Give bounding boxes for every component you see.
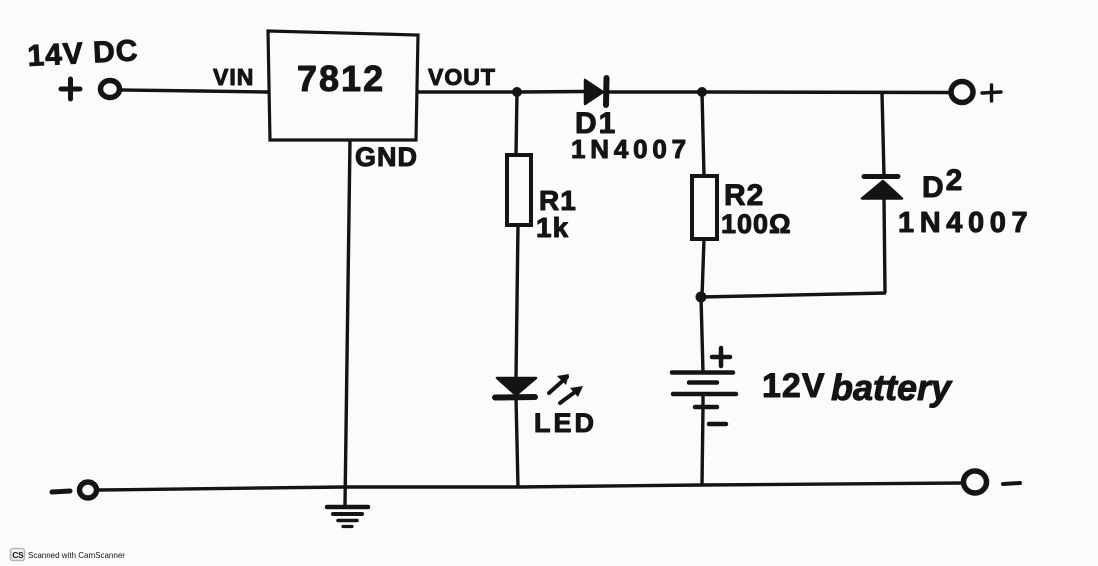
- svg-text:1k: 1k: [536, 212, 569, 243]
- wire node B to output terminal: [702, 90, 949, 94]
- battery plus label: [712, 348, 730, 366]
- wire LED to bottom rail: [516, 397, 518, 488]
- svg-text:1N4007: 1N4007: [571, 134, 691, 164]
- node A junction dot: [512, 87, 522, 97]
- minus sign at bottom-right terminal: [1003, 483, 1020, 484]
- battery plate long 1: [672, 370, 733, 375]
- wire node A to diode D1: [517, 90, 585, 94]
- diode D2: [862, 177, 902, 199]
- LED D3: [495, 374, 583, 403]
- wire node A down to R1: [516, 92, 517, 155]
- svg-text:1N4007: 1N4007: [898, 207, 1033, 239]
- svg-text:12V: 12V: [762, 367, 826, 405]
- bottom rail wire: [99, 483, 963, 490]
- battery plate short 1: [689, 380, 717, 385]
- wire VOUT to node A: [417, 90, 517, 93]
- svg-text:100Ω: 100Ω: [721, 209, 792, 239]
- minus sign at bottom-left terminal: [52, 491, 70, 492]
- wire input terminal to VIN: [122, 90, 268, 92]
- input terminal circle: [101, 81, 120, 98]
- svg-text:GND: GND: [355, 142, 418, 172]
- svg-text:VIN: VIN: [213, 64, 254, 90]
- svg-text:R2: R2: [724, 179, 764, 212]
- wire battery to bottom rail: [702, 394, 703, 485]
- bottom-right negative terminal: [964, 471, 987, 493]
- svg-text:14V DC: 14V DC: [27, 34, 140, 73]
- diode D1: [585, 78, 607, 105]
- battery plate short 2: [695, 405, 717, 410]
- bottom-left negative terminal: [80, 482, 97, 498]
- ground symbol: [327, 507, 368, 527]
- node B junction dot: [697, 87, 707, 97]
- svg-text:VOUT: VOUT: [428, 64, 496, 90]
- battery plate long 2: [673, 392, 736, 397]
- svg-text:7812: 7812: [297, 58, 385, 99]
- svg-text:battery: battery: [831, 367, 953, 408]
- battery BT1 12V: [672, 297, 736, 485]
- wire R1 to LED: [516, 225, 518, 378]
- plus sign at input terminal: [61, 79, 80, 99]
- wire R2 to node C: [702, 239, 704, 297]
- node C junction dot: [696, 292, 707, 303]
- wire D2 branch up to diode D2: [884, 198, 885, 293]
- wire diode D2 up to top rail: [882, 93, 884, 176]
- wire GND pin down to ground: [345, 140, 350, 505]
- wire D1 to node B: [609, 90, 702, 93]
- wire node B down to R2: [702, 92, 704, 176]
- svg-text:LED: LED: [534, 408, 597, 438]
- svg-text:Scanned with CamScanner: Scanned with CamScanner: [28, 551, 125, 560]
- LED arrow 2: [560, 389, 579, 403]
- CamScanner watermark icon: [11, 549, 25, 561]
- wire node C down to battery: [701, 297, 703, 372]
- battery minus label: [709, 422, 726, 427]
- LED arrow 1: [549, 377, 567, 393]
- resistor R1: [507, 155, 531, 225]
- svg-text:CS: CS: [12, 550, 24, 560]
- resistor R2: [692, 176, 717, 239]
- plus sign at output terminal: [982, 85, 1001, 101]
- output positive terminal: [951, 82, 973, 103]
- wire node C to D2 branch: [701, 293, 886, 297]
- regulator U1 7812 box: [268, 31, 418, 140]
